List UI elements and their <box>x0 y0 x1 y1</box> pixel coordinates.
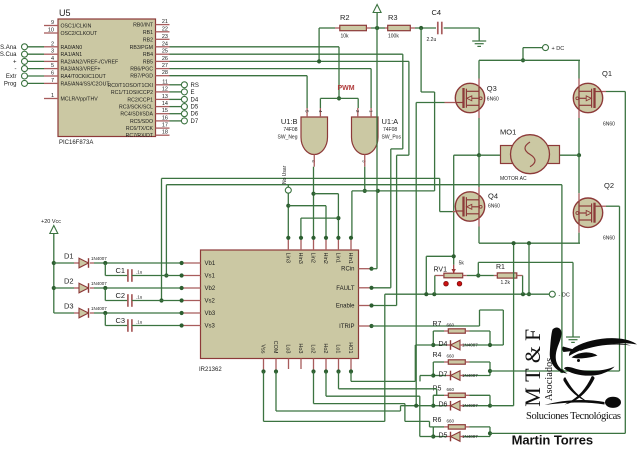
svg-text:Vs1: Vs1 <box>205 274 216 280</box>
svg-text:- DC: - DC <box>559 293 570 299</box>
svg-text:Ho2: Ho2 <box>322 343 328 353</box>
svg-text:RB7/PGD: RB7/PGD <box>130 74 153 80</box>
svg-text:Lin2: Lin2 <box>310 253 316 263</box>
svg-text:Lin3: Lin3 <box>284 253 290 263</box>
svg-text:+: + <box>13 59 17 65</box>
svg-text:Vb1: Vb1 <box>205 261 216 267</box>
svg-text:.1u: .1u <box>136 320 143 325</box>
svg-text:660: 660 <box>447 387 455 392</box>
svg-text:MO1: MO1 <box>500 128 516 137</box>
svg-text:RB4: RB4 <box>143 52 153 58</box>
svg-text:74F08: 74F08 <box>383 127 397 133</box>
svg-text:RA0/AN0: RA0/AN0 <box>61 45 83 51</box>
svg-text:R1: R1 <box>496 264 505 271</box>
svg-text:R4: R4 <box>433 352 442 359</box>
svg-text:Enable: Enable <box>336 304 355 310</box>
svg-text:Lo2: Lo2 <box>310 344 316 353</box>
svg-text:10k: 10k <box>341 34 350 40</box>
svg-text:1N4007: 1N4007 <box>462 434 478 439</box>
svg-text:Vb2: Vb2 <box>205 286 216 292</box>
svg-text:6N60: 6N60 <box>488 204 500 210</box>
svg-text:C4: C4 <box>432 8 442 17</box>
svg-text:Vs2: Vs2 <box>205 299 216 305</box>
svg-text:24: 24 <box>162 41 168 47</box>
svg-text:PIC16F873A: PIC16F873A <box>59 140 93 146</box>
svg-text:1N4007: 1N4007 <box>91 256 107 261</box>
svg-text:5: 5 <box>51 63 54 69</box>
svg-text:RV1: RV1 <box>434 267 448 274</box>
svg-text:RA1/AN1: RA1/AN1 <box>61 52 83 58</box>
svg-text:R2: R2 <box>340 13 350 22</box>
svg-text:660: 660 <box>447 354 455 359</box>
svg-text:IR21362: IR21362 <box>199 367 222 373</box>
svg-text:C2: C2 <box>116 291 126 300</box>
svg-text:9: 9 <box>51 20 54 26</box>
svg-text:13: 13 <box>162 94 168 100</box>
svg-text:.1u: .1u <box>136 270 143 275</box>
svg-text:C1: C1 <box>116 266 126 275</box>
svg-text:25: 25 <box>162 49 168 55</box>
svg-text:17: 17 <box>162 123 168 129</box>
svg-text:RC1/T1OSI/CCP2: RC1/T1OSI/CCP2 <box>111 90 153 96</box>
svg-text:7: 7 <box>51 78 54 84</box>
svg-text:RC3/SCK/SCL: RC3/SCK/SCL <box>119 105 153 111</box>
svg-text:6N60: 6N60 <box>603 236 615 242</box>
svg-text:Vb3: Vb3 <box>205 311 216 317</box>
svg-text:COM: COM <box>272 341 278 354</box>
svg-text:Hin1: Hin1 <box>347 253 353 264</box>
svg-text:1N4007: 1N4007 <box>462 403 478 408</box>
svg-text:Q1: Q1 <box>602 69 612 78</box>
svg-text:RC2/CCP1: RC2/CCP1 <box>127 97 153 103</box>
svg-text:D4: D4 <box>191 97 199 103</box>
svg-text:D2: D2 <box>64 277 74 286</box>
svg-text:Martin Torres: Martin Torres <box>512 432 593 447</box>
svg-text:10: 10 <box>48 28 54 34</box>
svg-text:1N4007: 1N4007 <box>462 343 478 348</box>
svg-text:15: 15 <box>162 108 168 114</box>
svg-text:RB6/PGC: RB6/PGC <box>130 67 153 73</box>
svg-text:D1: D1 <box>64 252 74 261</box>
svg-text:S.Ana: S.Ana <box>0 45 17 51</box>
svg-text:100k: 100k <box>388 34 399 40</box>
svg-text:660: 660 <box>447 419 455 424</box>
svg-text:D5: D5 <box>439 433 448 440</box>
svg-text:E: E <box>191 90 195 96</box>
svg-text:Hin3: Hin3 <box>297 253 303 264</box>
svg-text:Lo1: Lo1 <box>335 344 341 353</box>
svg-text:RC0/T1OSO/T1CKI: RC0/T1OSO/T1CKI <box>107 83 153 89</box>
svg-text:MOTOR AC: MOTOR AC <box>500 176 527 182</box>
svg-text:Prog: Prog <box>4 81 17 87</box>
svg-text:3: 3 <box>51 49 54 55</box>
svg-text:1N4007: 1N4007 <box>91 281 107 286</box>
svg-text:Q4: Q4 <box>488 192 498 201</box>
svg-text:RS: RS <box>191 83 199 89</box>
svg-text:U1:A: U1:A <box>382 117 399 126</box>
svg-text:OSC2/CLKOUT: OSC2/CLKOUT <box>61 31 98 37</box>
svg-text:D3: D3 <box>64 302 74 311</box>
svg-text:RB0/INT: RB0/INT <box>133 23 154 29</box>
svg-text:D6: D6 <box>191 112 199 118</box>
svg-text:6N60: 6N60 <box>603 122 615 128</box>
svg-text:RC4/SDI/SDA: RC4/SDI/SDA <box>120 112 153 118</box>
svg-text:18: 18 <box>162 130 168 136</box>
svg-text:11: 11 <box>162 79 168 85</box>
svg-text:RB1: RB1 <box>143 30 153 36</box>
svg-text:S.Cua: S.Cua <box>0 52 17 58</box>
svg-text:Lo3: Lo3 <box>285 344 291 353</box>
svg-text:-: - <box>15 67 17 73</box>
svg-text:1N4007: 1N4007 <box>462 373 478 378</box>
svg-text:RC7/RX/DT: RC7/RX/DT <box>126 133 154 139</box>
svg-text:2: 2 <box>51 41 54 47</box>
svg-text:+ DC: + DC <box>552 46 565 52</box>
svg-text:HO1: HO1 <box>347 342 353 353</box>
svg-text:R6: R6 <box>433 417 442 424</box>
svg-text:D6: D6 <box>439 402 448 409</box>
svg-text:RC5/SDO: RC5/SDO <box>130 119 153 125</box>
svg-text:ITRIP: ITRIP <box>339 324 354 330</box>
svg-text:D7: D7 <box>191 119 199 125</box>
svg-text:D7: D7 <box>439 372 448 379</box>
svg-text:74F08: 74F08 <box>283 127 297 133</box>
svg-text:2.2u: 2.2u <box>427 37 437 43</box>
svg-text:RB2: RB2 <box>143 37 153 43</box>
svg-text:R3: R3 <box>388 13 398 22</box>
svg-text:1N4007: 1N4007 <box>91 306 107 311</box>
svg-text:C3: C3 <box>116 316 126 325</box>
svg-text:.1u: .1u <box>136 295 143 300</box>
svg-text:5k: 5k <box>459 261 465 267</box>
svg-text:RCin: RCin <box>341 267 354 273</box>
svg-text:Q2: Q2 <box>604 181 614 190</box>
svg-text:14: 14 <box>162 101 168 107</box>
svg-text:16: 16 <box>162 115 168 121</box>
svg-text:+20 Vcc: +20 Vcc <box>41 219 61 225</box>
svg-text:RB5: RB5 <box>143 59 153 65</box>
svg-text:OSC1/CLKIN: OSC1/CLKIN <box>61 24 92 30</box>
svg-text:4: 4 <box>51 56 54 62</box>
svg-text:SW_Pos: SW_Pos <box>382 135 402 141</box>
svg-text:D5: D5 <box>191 105 199 111</box>
svg-text:Extr: Extr <box>6 74 17 80</box>
svg-text:RA2/AN2/VREF-/CVREF: RA2/AN2/VREF-/CVREF <box>61 59 119 65</box>
svg-text:R7: R7 <box>433 321 442 328</box>
svg-text:26: 26 <box>162 56 168 62</box>
svg-text:6N60: 6N60 <box>487 97 499 103</box>
svg-text:6: 6 <box>51 71 54 77</box>
svg-text:22: 22 <box>162 26 168 32</box>
svg-text:U1:B: U1:B <box>281 117 298 126</box>
svg-text:U5: U5 <box>59 8 71 18</box>
svg-text:FAULT: FAULT <box>336 286 355 292</box>
svg-text:Hin2: Hin2 <box>322 253 328 264</box>
svg-text:RA3/AN3/VREF+: RA3/AN3/VREF+ <box>61 67 101 73</box>
svg-text:Lin1: Lin1 <box>334 253 340 263</box>
svg-text:RB3/PGM: RB3/PGM <box>130 45 153 51</box>
svg-text:Vs3: Vs3 <box>205 324 216 330</box>
svg-text:21: 21 <box>162 19 168 25</box>
svg-text:Soluciones Tecnológicas: Soluciones Tecnológicas <box>526 411 621 422</box>
svg-text:RA5/AN4/SS/C2OUT: RA5/AN4/SS/C2OUT <box>61 81 111 87</box>
svg-text:Vss: Vss <box>260 344 266 353</box>
svg-text:1: 1 <box>51 93 54 99</box>
svg-text:28: 28 <box>162 70 168 76</box>
svg-text:660: 660 <box>447 323 455 328</box>
svg-text:RA4/T0CKI/C1OUT: RA4/T0CKI/C1OUT <box>61 74 107 80</box>
svg-text:Ho3: Ho3 <box>297 343 303 353</box>
svg-text:27: 27 <box>162 63 168 69</box>
svg-text:No Usar: No Usar <box>282 165 288 184</box>
svg-text:Q3: Q3 <box>487 84 497 93</box>
svg-text:RC6/TX/CK: RC6/TX/CK <box>126 126 154 132</box>
svg-text:D4: D4 <box>439 341 448 348</box>
svg-text:23: 23 <box>162 34 168 40</box>
svg-text:12: 12 <box>162 86 168 92</box>
svg-text:1.2k: 1.2k <box>501 280 511 286</box>
svg-text:SW_Neg: SW_Neg <box>277 135 297 141</box>
svg-text:PWM: PWM <box>338 85 355 92</box>
svg-text:MCLR/Vpp/THV: MCLR/Vpp/THV <box>61 97 99 103</box>
